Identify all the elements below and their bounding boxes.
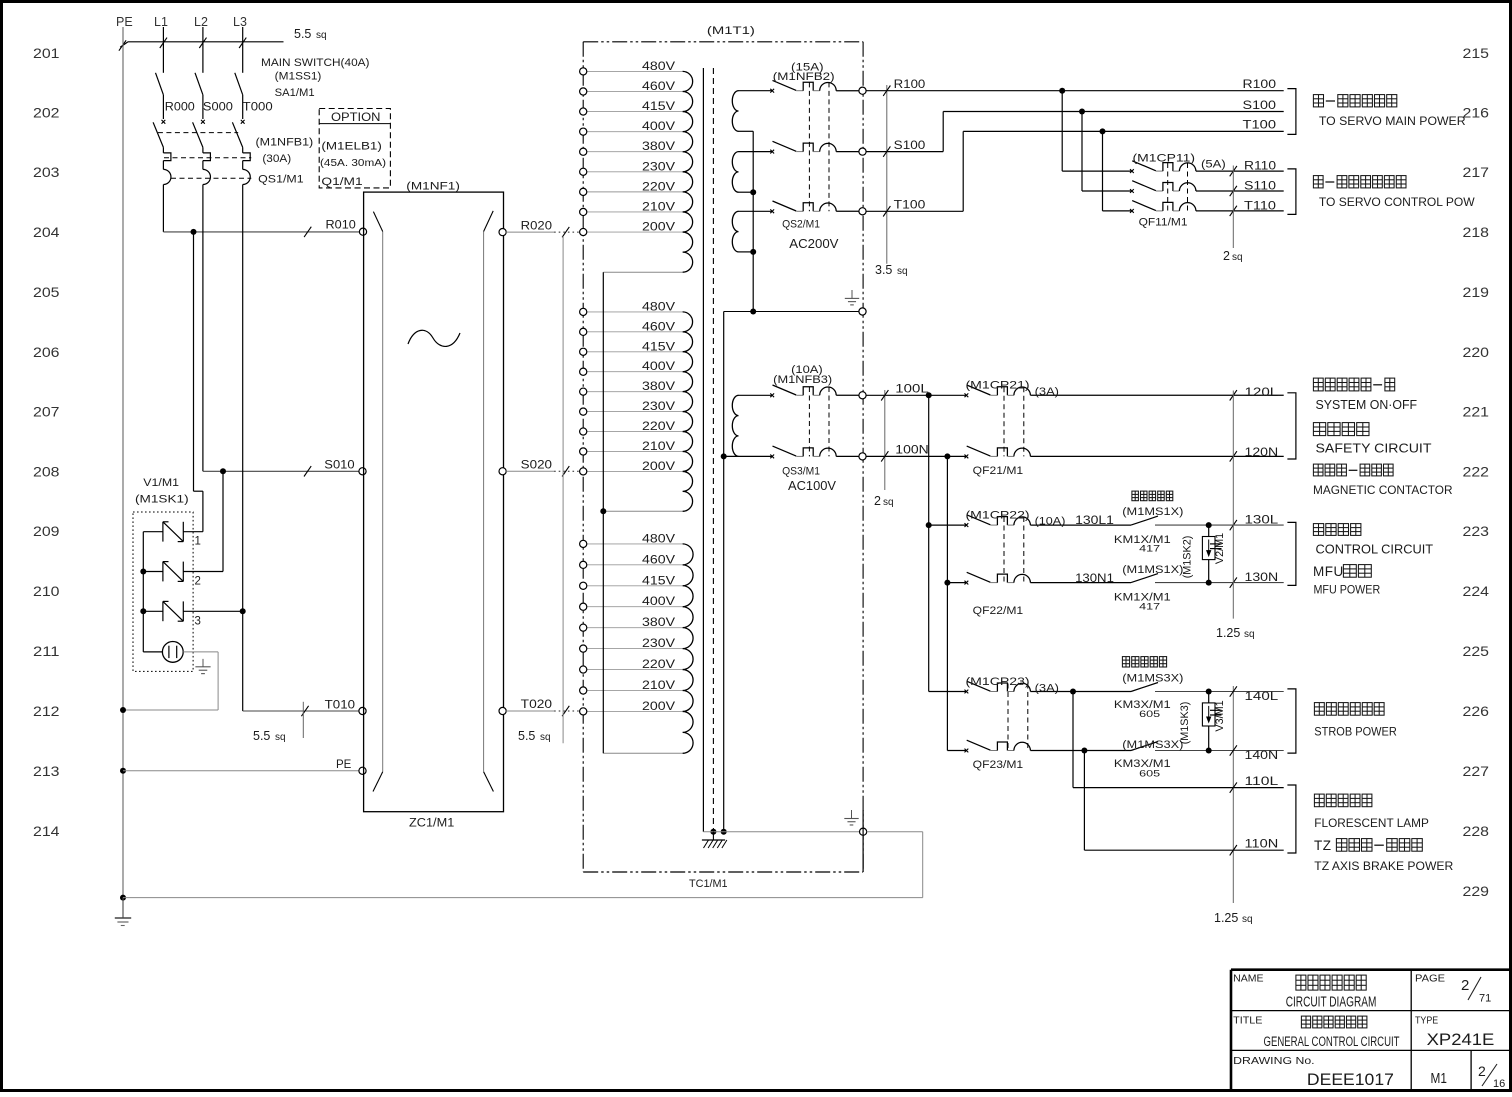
svg-text:(M1SK2): (M1SK2) [1182, 536, 1194, 579]
svg-text:130N1: 130N1 [1075, 573, 1114, 585]
svg-text:212: 212 [33, 704, 60, 719]
svg-text:SYSTEM ON·OFF: SYSTEM ON·OFF [1316, 398, 1418, 412]
svg-text:213: 213 [33, 764, 60, 779]
svg-text:TZ: TZ [1314, 838, 1332, 853]
svg-text:QS1/M1: QS1/M1 [258, 174, 303, 186]
svg-text:S010: S010 [324, 460, 354, 472]
svg-text:205: 205 [33, 285, 60, 300]
svg-text:226: 226 [1463, 704, 1490, 719]
svg-text:225: 225 [1463, 644, 1490, 659]
svg-text:216: 216 [1463, 106, 1490, 121]
svg-text:MFU POWER: MFU POWER [1314, 583, 1381, 597]
svg-text:230V: 230V [642, 638, 675, 650]
svg-text:215: 215 [1463, 46, 1490, 61]
svg-text:460V: 460V [642, 554, 675, 566]
svg-text:(3A): (3A) [1035, 386, 1059, 398]
svg-text:3.5: 3.5 [875, 263, 892, 277]
svg-text:400V: 400V [642, 596, 675, 608]
svg-text:16: 16 [1493, 1078, 1505, 1090]
svg-text:209: 209 [33, 524, 60, 539]
svg-text:(M1NF1): (M1NF1) [406, 181, 460, 193]
svg-text:S020: S020 [521, 460, 552, 472]
svg-text:XP241E: XP241E [1427, 1030, 1495, 1049]
svg-text:2: 2 [874, 494, 881, 508]
svg-text:PE: PE [116, 15, 133, 29]
svg-text:2: 2 [1223, 249, 1230, 263]
svg-text:380V: 380V [642, 141, 675, 153]
svg-text:210: 210 [33, 584, 60, 599]
svg-text:120L: 120L [1245, 387, 1279, 399]
svg-text:219: 219 [1463, 285, 1490, 300]
svg-text:(M1ELB1): (M1ELB1) [321, 141, 382, 153]
svg-text:605: 605 [1139, 709, 1160, 720]
svg-text:218: 218 [1463, 225, 1490, 240]
svg-text:T110: T110 [1244, 200, 1276, 212]
svg-text:110N: 110N [1245, 839, 1279, 851]
svg-text:TZ AXIS BRAKE POWER: TZ AXIS BRAKE POWER [1314, 859, 1453, 873]
svg-text:(M1CP21): (M1CP21) [966, 380, 1030, 392]
svg-text:230V: 230V [642, 161, 675, 173]
svg-text:AC100V: AC100V [788, 479, 837, 493]
svg-text:L3: L3 [233, 15, 247, 29]
svg-text:214: 214 [33, 824, 60, 839]
svg-text:224: 224 [1463, 584, 1490, 599]
svg-text:(M1NFB3): (M1NFB3) [773, 374, 832, 386]
svg-text:QF23/M1: QF23/M1 [973, 759, 1024, 771]
svg-text:100L: 100L [895, 384, 929, 396]
svg-text:210V: 210V [642, 441, 675, 453]
svg-text:417: 417 [1139, 543, 1160, 554]
svg-text:V3/M1: V3/M1 [1214, 700, 1226, 731]
svg-text:SA1/M1: SA1/M1 [275, 87, 315, 99]
svg-text:415V: 415V [642, 341, 675, 353]
svg-text:T020: T020 [521, 699, 552, 711]
svg-text:5.5: 5.5 [294, 27, 311, 41]
svg-text:S100: S100 [1243, 100, 1277, 112]
svg-text:110L: 110L [1245, 776, 1280, 788]
svg-text:217: 217 [1463, 165, 1490, 180]
svg-text:NAME: NAME [1233, 973, 1263, 985]
svg-text:222: 222 [1463, 465, 1490, 480]
svg-text:QF11/M1: QF11/M1 [1139, 217, 1188, 229]
svg-text:(10A): (10A) [1035, 516, 1066, 528]
svg-text:L1: L1 [154, 15, 168, 29]
svg-text:227: 227 [1463, 764, 1490, 779]
svg-text:PAGE: PAGE [1415, 973, 1445, 985]
svg-text:228: 228 [1463, 824, 1490, 839]
svg-text:TITLE: TITLE [1233, 1015, 1262, 1027]
svg-text:208: 208 [33, 465, 60, 480]
svg-text:MFU: MFU [1313, 564, 1344, 579]
svg-text:380V: 380V [642, 617, 675, 629]
svg-text:sq: sq [540, 732, 551, 743]
svg-text:PE: PE [336, 759, 352, 771]
svg-text:QF22/M1: QF22/M1 [973, 605, 1024, 617]
svg-text:CIRCUIT DIAGRAM: CIRCUIT DIAGRAM [1286, 995, 1377, 1011]
svg-text:ZC1/M1: ZC1/M1 [409, 818, 454, 830]
svg-text:TO SERVO MAIN POWER: TO SERVO MAIN POWER [1319, 114, 1466, 128]
svg-text:400V: 400V [642, 361, 675, 373]
svg-text:5.5: 5.5 [253, 729, 270, 743]
svg-text:(M1SS1): (M1SS1) [275, 71, 322, 83]
svg-text:230V: 230V [642, 401, 675, 413]
svg-text:204: 204 [33, 225, 60, 240]
svg-text:MAGNETIC CONTACTOR: MAGNETIC CONTACTOR [1313, 483, 1453, 497]
svg-text:200V: 200V [642, 461, 675, 473]
svg-text:220: 220 [1463, 345, 1490, 360]
svg-text:V2/M1: V2/M1 [1214, 533, 1226, 564]
svg-text:S100: S100 [894, 140, 926, 152]
svg-text:Q1/M1: Q1/M1 [321, 176, 362, 188]
svg-text:(M1CP11): (M1CP11) [1133, 153, 1196, 165]
svg-text:(M1CP23): (M1CP23) [966, 676, 1030, 688]
svg-text:(M1T1): (M1T1) [707, 25, 755, 37]
svg-text:AC200V: AC200V [789, 237, 839, 251]
svg-text:TC1/M1: TC1/M1 [689, 878, 728, 890]
svg-text:207: 207 [33, 405, 60, 420]
svg-text:TYPE: TYPE [1415, 1015, 1438, 1027]
svg-text:200V: 200V [642, 701, 675, 713]
svg-text:130L: 130L [1245, 514, 1279, 526]
svg-text:T000: T000 [243, 102, 273, 114]
svg-text:FLORESCENT LAMP: FLORESCENT LAMP [1314, 816, 1429, 830]
svg-text:202: 202 [33, 106, 60, 121]
svg-text:210V: 210V [642, 201, 675, 213]
svg-text:S000: S000 [203, 102, 233, 114]
svg-text:5.5: 5.5 [518, 729, 535, 743]
svg-text:sq: sq [1244, 629, 1255, 640]
svg-text:(M1CP22): (M1CP22) [966, 510, 1030, 522]
svg-text:220V: 220V [642, 421, 675, 433]
svg-text:S110: S110 [1244, 180, 1276, 192]
svg-text:480V: 480V [642, 301, 675, 313]
svg-text:(30A): (30A) [262, 153, 291, 165]
svg-text:R020: R020 [521, 220, 552, 232]
svg-text:2: 2 [1461, 977, 1469, 994]
svg-text:1.25: 1.25 [1214, 911, 1238, 925]
svg-text:(M1NFB1): (M1NFB1) [256, 137, 314, 149]
svg-text:R000: R000 [165, 102, 195, 114]
svg-text:SAFETY CIRCUIT: SAFETY CIRCUIT [1316, 442, 1432, 456]
svg-text:V1/M1: V1/M1 [143, 477, 179, 489]
svg-text:206: 206 [33, 345, 60, 360]
svg-text:220V: 220V [642, 659, 675, 671]
svg-text:QS2/M1: QS2/M1 [782, 219, 820, 231]
svg-text:QS3/M1: QS3/M1 [782, 466, 820, 478]
svg-text:R100: R100 [1243, 79, 1277, 91]
svg-text:417: 417 [1139, 602, 1160, 613]
svg-text:T100: T100 [1243, 120, 1277, 132]
svg-text:sq: sq [1232, 252, 1243, 263]
svg-text:M1: M1 [1431, 1070, 1447, 1087]
svg-text:R100: R100 [894, 79, 926, 91]
svg-text:201: 201 [33, 46, 60, 61]
svg-text:140L: 140L [1245, 691, 1279, 703]
svg-text:(5A): (5A) [1201, 159, 1226, 171]
svg-text:130N: 130N [1245, 572, 1279, 584]
svg-text:(3A): (3A) [1035, 683, 1059, 695]
svg-text:400V: 400V [642, 121, 675, 133]
svg-text:71: 71 [1479, 993, 1491, 1005]
svg-text:sq: sq [1242, 914, 1253, 925]
svg-text:211: 211 [33, 644, 60, 659]
svg-text:203: 203 [33, 165, 60, 180]
svg-text:223: 223 [1463, 524, 1490, 539]
svg-text:130L1: 130L1 [1075, 515, 1114, 527]
svg-text:(M1MS1X): (M1MS1X) [1122, 564, 1183, 576]
svg-text:DRAWING No.: DRAWING No. [1233, 1055, 1315, 1067]
svg-text:3: 3 [195, 615, 201, 627]
svg-text:415V: 415V [642, 575, 675, 587]
svg-text:480V: 480V [642, 533, 675, 545]
svg-text:L2: L2 [194, 15, 208, 29]
svg-text:sq: sq [316, 30, 327, 41]
svg-text:2: 2 [1478, 1063, 1486, 1079]
svg-text:MAIN SWITCH(40A): MAIN SWITCH(40A) [261, 57, 370, 69]
svg-text:460V: 460V [642, 81, 675, 93]
svg-text:QF21/M1: QF21/M1 [973, 465, 1024, 477]
svg-text:STROB POWER: STROB POWER [1314, 725, 1397, 739]
svg-text:120N: 120N [1245, 447, 1279, 459]
svg-text:DEEE1017: DEEE1017 [1307, 1071, 1394, 1089]
svg-text:sq: sq [275, 732, 286, 743]
svg-text:(M1SK1): (M1SK1) [135, 494, 189, 506]
svg-text:605: 605 [1139, 769, 1160, 780]
svg-text:(M1NFB2): (M1NFB2) [773, 71, 835, 83]
svg-text:220V: 220V [642, 181, 675, 193]
svg-text:TO SERVO CONTROL POW: TO SERVO CONTROL POW [1319, 195, 1475, 209]
svg-text:OPTION: OPTION [331, 112, 381, 124]
svg-text:2: 2 [195, 576, 201, 588]
svg-text:T100: T100 [894, 200, 926, 212]
svg-text:(M1MS3X): (M1MS3X) [1122, 739, 1183, 751]
svg-text:140N: 140N [1245, 750, 1279, 762]
svg-text:200V: 200V [642, 222, 675, 234]
svg-text:CONTROL CIRCUIT: CONTROL CIRCUIT [1316, 543, 1434, 557]
svg-text:T010: T010 [325, 700, 355, 712]
svg-text:(45A. 30mA): (45A. 30mA) [320, 158, 386, 169]
svg-text:R010: R010 [326, 220, 356, 232]
svg-text:380V: 380V [642, 381, 675, 393]
svg-text:210V: 210V [642, 680, 675, 692]
svg-text:229: 229 [1463, 884, 1490, 899]
svg-text:(M1MS1X): (M1MS1X) [1122, 506, 1183, 518]
svg-text:GENERAL CONTROL CIRCUIT: GENERAL CONTROL CIRCUIT [1264, 1034, 1400, 1049]
svg-text:R110: R110 [1244, 161, 1276, 173]
svg-text:sq: sq [897, 266, 908, 277]
svg-text:sq: sq [883, 497, 894, 508]
svg-text:1.25: 1.25 [1216, 626, 1240, 640]
svg-text:(M1SK3): (M1SK3) [1179, 702, 1191, 745]
svg-text:221: 221 [1463, 405, 1490, 420]
svg-text:100N: 100N [895, 445, 928, 457]
svg-text:480V: 480V [642, 61, 675, 73]
svg-text:1: 1 [195, 536, 201, 548]
svg-text:(M1MS3X): (M1MS3X) [1122, 673, 1183, 685]
svg-text:460V: 460V [642, 321, 675, 333]
svg-text:415V: 415V [642, 101, 675, 113]
